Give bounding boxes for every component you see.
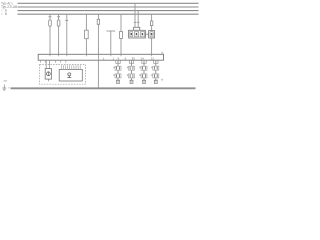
svg-text:35: 35 — [132, 56, 136, 60]
svg-text:21: 21 — [151, 56, 155, 60]
svg-text:○ B: ○ B — [1, 12, 7, 16]
svg-text:14: 14 — [140, 56, 144, 60]
